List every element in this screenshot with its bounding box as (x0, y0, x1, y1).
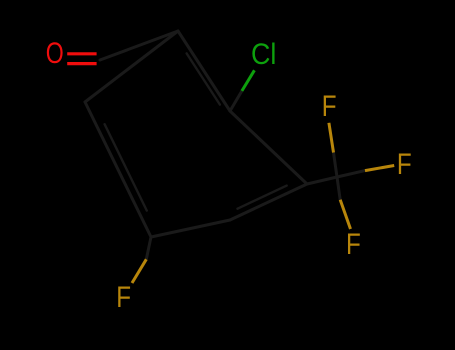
svg-text:F: F (322, 90, 337, 123)
wire: gold half bond CF3 to bottom F (340, 200, 350, 229)
wire: dark half of C2-Cl bond (230, 91, 242, 111)
svg-text:F: F (397, 148, 412, 181)
wire: ring edge C3-C4 (230, 184, 307, 220)
wire: C=O double bond lower line (67, 62, 96, 65)
wire: bond C1 to aldehyde carbon (100, 31, 178, 60)
wire: ring edge C4-C5 (151, 220, 230, 237)
wire: aromatic inner line C1=C2 (187, 53, 220, 104)
wire: gold half bond C5 to ring F (132, 259, 146, 283)
wire: dark half of C5-F bond (146, 237, 151, 259)
wire: ring edge C1-C2 (178, 31, 230, 111)
wire: gold half bond CF3 to top F (329, 123, 334, 153)
wire: dark half of CF3-F right bond (337, 171, 365, 177)
svg-text:F: F (346, 228, 361, 261)
svg-text:Cl: Cl (251, 38, 276, 71)
svg-text:O: O (46, 37, 64, 70)
wire: bond C3 to CF3 carbon (307, 177, 337, 184)
wire: dark half of CF3-F top bond (334, 153, 338, 178)
wire: ring edge C6-C1 (85, 31, 178, 102)
wire: dark half of CF3-F bottom bond (337, 177, 340, 200)
wire: gold half bond CF3 to right F (365, 166, 394, 171)
svg-text:F: F (116, 281, 131, 314)
wire: ring edge C2-C3 (230, 111, 307, 184)
benzene ring (distorted hexagon) carbon skeleton (85, 31, 365, 259)
wire: aromatic inner line C5=C6 (105, 124, 147, 210)
aldehyde C=O double bond (red half) (67, 54, 96, 64)
fluorine bonds of CF3 (goldenrod halves) (132, 123, 394, 283)
wire: C=O double bond upper line (67, 52, 96, 55)
chlorine bond (green half) (242, 70, 255, 91)
wire: ring edge C5-C6 (85, 102, 151, 237)
wire: aromatic inner line C3=C4 (238, 186, 287, 209)
